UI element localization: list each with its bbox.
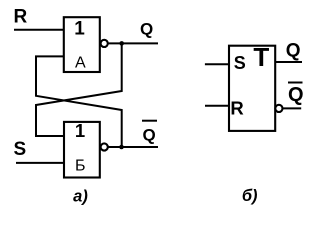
flip-flop body bbox=[229, 46, 275, 131]
wire S input flip-flop bbox=[205, 63, 229, 65]
wire gate Б output to Q-bar bbox=[108, 146, 158, 148]
svg-text:Q: Q bbox=[288, 84, 304, 106]
svg-text:А: А bbox=[75, 55, 86, 72]
svg-text:R: R bbox=[230, 98, 243, 119]
svg-text:б): б) bbox=[242, 187, 258, 205]
svg-text:1: 1 bbox=[75, 120, 85, 141]
output label Q-bar overline bbox=[142, 120, 157, 122]
svg-text:T: T bbox=[253, 42, 269, 72]
svg-text:Q: Q bbox=[143, 126, 156, 145]
inversion bubble Q-bar flip-flop bbox=[275, 105, 282, 112]
wire R input to gate A bbox=[14, 29, 64, 31]
node Q junction bbox=[119, 41, 124, 46]
wire Q-bar output flip-flop bbox=[283, 107, 302, 109]
node Q-bar junction bbox=[119, 145, 124, 150]
svg-text:S: S bbox=[234, 53, 246, 73]
gate A body bbox=[64, 17, 100, 72]
wire Q output flip-flop bbox=[275, 61, 302, 63]
svg-text:Q: Q bbox=[140, 20, 153, 39]
wire feedback from node Q to gate Б upper input bbox=[36, 43, 122, 136]
wire feedback from node Q-bar to gate A lower input bbox=[36, 56, 122, 147]
wire gate A output to Q bbox=[108, 42, 158, 44]
inversion bubble gate A output bbox=[101, 40, 108, 47]
wire S input to gate Б bbox=[16, 162, 65, 164]
svg-text:S: S bbox=[14, 139, 27, 160]
wire R input flip-flop bbox=[205, 105, 229, 107]
svg-text:Б: Б bbox=[75, 157, 86, 174]
svg-text:Q: Q bbox=[286, 40, 301, 61]
output label Q-bar flip-flop overline bbox=[288, 82, 303, 84]
gate Б body bbox=[64, 122, 100, 178]
svg-text:а): а) bbox=[73, 187, 88, 205]
svg-text:1: 1 bbox=[74, 18, 85, 39]
inversion bubble gate Б output bbox=[101, 143, 108, 150]
svg-text:R: R bbox=[14, 7, 28, 28]
